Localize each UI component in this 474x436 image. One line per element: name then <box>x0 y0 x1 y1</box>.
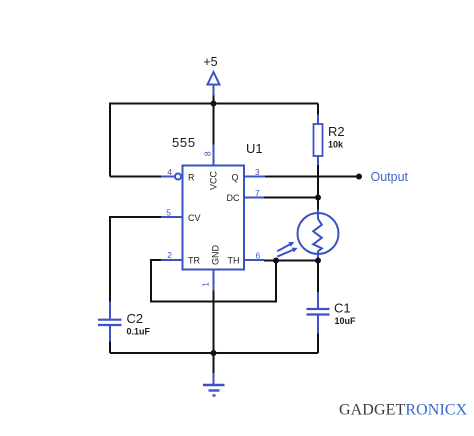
ground <box>203 373 225 396</box>
LDR light arrow 2 <box>277 248 297 257</box>
wire R2 top black <box>317 104 319 115</box>
svg-text:10k: 10k <box>328 140 344 150</box>
pin 1 stub <box>213 270 215 291</box>
wire bottom ground rail <box>110 352 318 354</box>
pin 5 stub <box>161 216 183 218</box>
svg-text:+5: +5 <box>203 55 217 69</box>
node output terminal <box>356 174 362 180</box>
svg-text:VCC: VCC <box>209 171 219 191</box>
svg-text:10uF: 10uF <box>335 316 357 326</box>
wire pin7 DC to R2 node <box>264 197 318 199</box>
svg-text:5: 5 <box>166 208 171 218</box>
wire pin6 to junctions <box>264 260 318 262</box>
wire C1 bottom to ground rail <box>317 334 319 354</box>
wire pin3 Q to output <box>265 176 359 178</box>
svg-text:1: 1 <box>201 282 211 287</box>
svg-text:555: 555 <box>172 135 196 150</box>
svg-text:Q: Q <box>231 173 238 183</box>
pin 7 stub <box>244 197 264 199</box>
wire pin5 to left rail down to C2 <box>110 217 161 302</box>
node VCC junction <box>211 101 217 107</box>
svg-text:0.1uF: 0.1uF <box>127 327 151 337</box>
pin 4 stub and inversion circle <box>161 174 181 180</box>
node ground junction <box>211 350 217 356</box>
svg-text:4: 4 <box>167 167 172 177</box>
svg-text:GADGETRONICX: GADGETRONICX <box>339 402 468 419</box>
node LDR/C1 junction <box>315 258 321 264</box>
svg-text:GND: GND <box>211 245 221 266</box>
wire ground stub <box>213 353 215 373</box>
pin 8 stub <box>213 145 215 166</box>
svg-text:3: 3 <box>255 167 260 177</box>
node TR/TH junction <box>273 258 279 264</box>
pin 3 stub <box>244 176 265 178</box>
pin 6 stub <box>244 259 264 261</box>
svg-text:8: 8 <box>203 151 213 156</box>
power +5 arrow <box>208 72 220 96</box>
wire R2 bottom to node <box>317 165 319 210</box>
svg-text:TH: TH <box>228 256 240 266</box>
svg-text:6: 6 <box>256 251 261 261</box>
svg-text:R2: R2 <box>328 124 345 139</box>
LDR light arrow 1 <box>277 242 294 251</box>
wire TR loop pin2 to pin6 junction <box>151 260 276 302</box>
svg-text:CV: CV <box>188 213 201 223</box>
op-amp U1 555 IC body <box>183 166 245 270</box>
wire LDR bottom to C1 <box>317 261 319 293</box>
resistor R2 <box>314 115 323 166</box>
pin 2 stub <box>161 259 183 261</box>
wire pin1 GND down <box>213 291 215 354</box>
wire C2 bottom to ground rail <box>109 342 111 354</box>
svg-text:2: 2 <box>167 250 172 260</box>
wire pin4 to left rail <box>110 176 161 178</box>
svg-text:7: 7 <box>255 188 260 198</box>
svg-text:U1: U1 <box>246 141 263 156</box>
svg-text:R: R <box>188 173 195 183</box>
svg-text:Output: Output <box>371 170 409 184</box>
svg-text:DC: DC <box>227 193 240 203</box>
wire top rail <box>110 104 318 177</box>
wire VCC supply drop <box>213 96 215 145</box>
photoresistor LDR <box>298 210 339 261</box>
svg-text:C1: C1 <box>334 301 351 316</box>
svg-text:TR: TR <box>188 256 200 266</box>
svg-text:C2: C2 <box>127 311 144 326</box>
capacitor C2 <box>98 302 122 342</box>
node R2/DC junction <box>315 195 321 201</box>
capacitor C1 <box>307 292 330 334</box>
